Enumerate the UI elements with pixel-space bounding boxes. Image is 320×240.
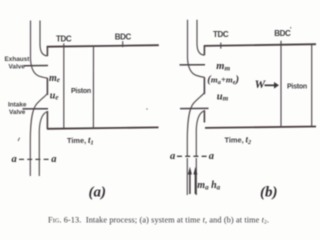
svg-text:Time,: Time, <box>225 135 244 144</box>
BDC tick + piston left face (b) <box>280 41 282 128</box>
piston right face (a) <box>92 46 94 129</box>
svg-text:Valve: Valve <box>9 64 26 71</box>
exhaust valve stem (a) <box>24 65 48 67</box>
svg-text:a: a <box>12 154 17 165</box>
svg-text:FIG. 6-13. Intake process; (a: FIG. 6-13. Intake process; (a) system at… <box>48 215 269 225</box>
intake valve stem (b) <box>180 107 209 109</box>
cylinder bottom wall (a) <box>47 127 159 128</box>
svg-text:um: um <box>217 91 229 102</box>
intake pipe outer wall (b) <box>187 93 204 156</box>
intake pipe lower extension right (b) <box>195 158 197 195</box>
svg-text:TDC: TDC <box>213 30 229 39</box>
intake pipe outer wall (a) <box>30 94 47 176</box>
cylinder head left wall (a) lower segment <box>46 111 48 129</box>
intake pipe lower extension left (b) <box>186 158 188 195</box>
svg-text:(b): (b) <box>260 185 278 201</box>
cylinder top wall (b) <box>204 44 316 46</box>
svg-text:a: a <box>209 151 214 162</box>
flow arrow 1 (b) <box>189 173 191 194</box>
svg-text:': ' <box>290 28 292 34</box>
svg-text:W: W <box>255 77 267 91</box>
svg-text:Piston: Piston <box>287 84 307 91</box>
cylinder bottom wall (b) <box>205 127 316 128</box>
svg-text:t1: t1 <box>88 135 94 147</box>
svg-text:(ma+me): (ma+me) <box>207 74 239 86</box>
BDC tick (a) <box>122 41 124 47</box>
exhaust pipe outer wall (a) <box>31 21 48 79</box>
svg-text:(a): (a) <box>89 185 107 201</box>
svg-text:Exhaust: Exhaust <box>5 56 31 63</box>
W arrow (b) <box>265 84 275 86</box>
intake valve stem (a) <box>23 108 49 110</box>
cylinder head left wall (a) middle segment between ports <box>46 78 48 95</box>
svg-text:BDC: BDC <box>115 32 132 41</box>
TDC tick + piston left face (a) <box>63 43 65 128</box>
svg-text:BDC: BDC <box>274 29 291 38</box>
svg-text:Piston: Piston <box>71 88 91 95</box>
svg-text:a: a <box>170 151 175 162</box>
svg-text:Time,: Time, <box>67 136 86 145</box>
exhaust pipe outer wall (b) <box>188 20 205 78</box>
TDC tick (b) <box>220 43 222 49</box>
svg-text:Intake: Intake <box>8 101 27 108</box>
svg-text:mm: mm <box>216 61 230 72</box>
section a-a dashed line (b) <box>177 155 208 157</box>
svg-text:a: a <box>51 154 56 165</box>
svg-text:TDC: TDC <box>56 34 72 43</box>
svg-text:t2: t2 <box>246 134 252 146</box>
intake pipe inner wall (b) <box>196 111 204 156</box>
section a-a dashed line (a) <box>19 158 51 160</box>
cylinder top wall (a) <box>47 45 159 47</box>
exhaust valve stem (b) <box>180 64 206 66</box>
cylinder head left wall (b) lower segment <box>203 110 205 122</box>
svg-text:ue: ue <box>50 90 59 101</box>
piston right face (b) <box>311 44 313 127</box>
intake pipe inner wall (a) <box>39 112 47 177</box>
cylinder head left wall (b) middle segment between ports <box>203 77 205 94</box>
cylinder head left wall (b) upper segment <box>203 45 205 55</box>
stray tick mark (a) <box>18 138 20 141</box>
cylinder head left wall (a) upper segment <box>46 46 48 56</box>
svg-text:me: me <box>49 73 60 84</box>
exhaust pipe inner wall (a) <box>40 21 48 56</box>
svg-text:ma ha: ma ha <box>197 180 220 191</box>
paper speck <box>146 108 148 110</box>
svg-text:Valve: Valve <box>9 109 26 116</box>
exhaust pipe inner wall (b) <box>197 20 205 55</box>
flow arrow 2 (b) <box>194 173 196 194</box>
